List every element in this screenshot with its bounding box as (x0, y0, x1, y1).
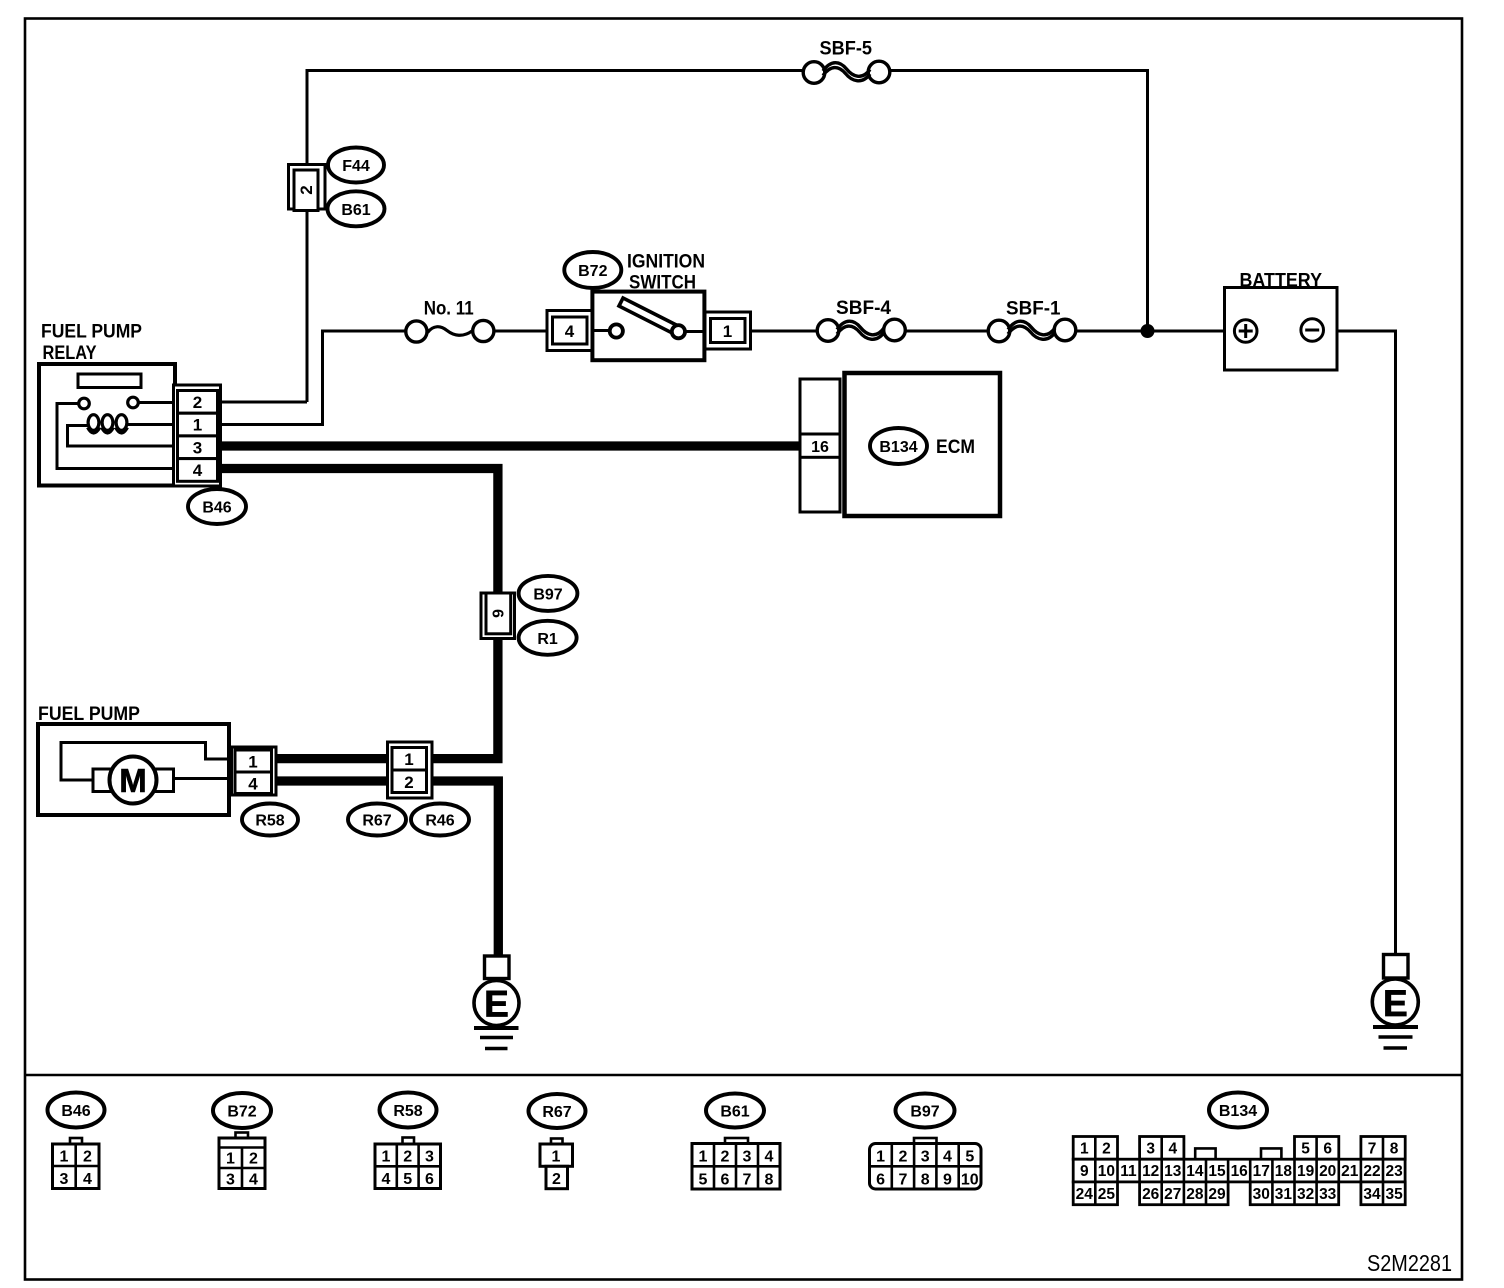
thick wire relay pin3 to ECM pin16 (218, 441, 800, 450)
svg-text:9: 9 (1080, 1163, 1089, 1180)
svg-text:2: 2 (403, 1149, 412, 1166)
svg-text:IGNITION: IGNITION (627, 252, 705, 273)
oval B46 bottom (48, 1093, 105, 1128)
svg-text:4: 4 (765, 1149, 774, 1166)
svg-text:ECM: ECM (936, 437, 975, 458)
svg-text:6: 6 (425, 1171, 434, 1188)
svg-text:RELAY: RELAY (43, 343, 97, 364)
wire top feed from F44 to SBF-5 and battery junction (307, 71, 1148, 403)
ignition switch box (592, 292, 704, 361)
svg-text:23: 23 (1385, 1163, 1403, 1180)
svg-text:19: 19 (1297, 1163, 1315, 1180)
svg-text:4: 4 (1168, 1140, 1177, 1157)
pump wire upper loop (61, 743, 235, 781)
svg-text:1: 1 (876, 1149, 885, 1166)
svg-text:34: 34 (1363, 1186, 1381, 1203)
svg-text:3: 3 (921, 1149, 930, 1166)
svg-text:3: 3 (1146, 1140, 1155, 1157)
relay contact bar (78, 374, 141, 388)
label IGNITION SWITCH (627, 252, 705, 294)
oval B97 bottom (896, 1094, 955, 1128)
svg-text:M: M (119, 762, 147, 799)
svg-text:B72: B72 (578, 263, 607, 280)
svg-text:1: 1 (381, 1149, 390, 1166)
svg-text:7: 7 (1368, 1140, 1377, 1157)
ground left connector box (485, 956, 510, 979)
svg-text:B134: B134 (1219, 1103, 1257, 1120)
wire SBF-4 to SBF-1 (904, 330, 990, 333)
oval B46 (188, 489, 246, 524)
svg-text:11: 11 (1120, 1163, 1137, 1180)
svg-text:7: 7 (743, 1172, 752, 1189)
svg-text:E: E (484, 984, 509, 1025)
oval F44 (328, 148, 384, 183)
relay coil (88, 415, 128, 433)
svg-text:FUEL PUMP: FUEL PUMP (38, 704, 140, 725)
svg-text:B97: B97 (533, 586, 562, 603)
svg-text:B72: B72 (227, 1104, 256, 1121)
svg-text:21: 21 (1341, 1163, 1359, 1180)
separator line (25, 1074, 1462, 1077)
fuse SBF-4 (817, 298, 905, 341)
svg-text:B46: B46 (61, 1103, 90, 1120)
svg-text:R67: R67 (362, 813, 391, 830)
svg-text:B97: B97 (910, 1104, 939, 1121)
ECM connector column (800, 379, 840, 512)
svg-text:28: 28 (1186, 1186, 1204, 1203)
wire ignition switch to SBF-4 (740, 330, 819, 333)
wire contact left to pin4 (57, 404, 177, 469)
svg-text:1: 1 (1080, 1140, 1089, 1157)
svg-text:B134: B134 (879, 439, 917, 456)
ECM box (845, 373, 1001, 516)
fuel pump box (38, 724, 235, 815)
oval R67 bottom (529, 1094, 586, 1128)
connector F44/B61 pin 2 (289, 165, 326, 211)
connector B72 pin 1 (705, 312, 751, 349)
connector R58 pins (232, 747, 277, 795)
svg-text:32: 32 (1297, 1186, 1314, 1203)
svg-text:31: 31 (1275, 1186, 1293, 1203)
svg-text:B61: B61 (341, 202, 370, 219)
svg-text:SBF-5: SBF-5 (820, 39, 873, 60)
oval B134 bottom (1209, 1093, 1267, 1128)
svg-text:4: 4 (943, 1149, 952, 1166)
svg-text:17: 17 (1253, 1163, 1270, 1180)
svg-text:26: 26 (1142, 1186, 1160, 1203)
svg-text:33: 33 (1319, 1186, 1337, 1203)
connector B46 relay pins (174, 385, 221, 486)
svg-text:8: 8 (1390, 1140, 1399, 1157)
fuse SBF-5 (803, 39, 890, 84)
switch contact right (672, 325, 685, 338)
svg-text:1: 1 (552, 1149, 561, 1166)
connector R58 pinout (375, 1138, 441, 1189)
svg-text:2: 2 (721, 1149, 730, 1166)
thick wire relay pin4 down through B97-R1 to fuel pump pin1 (218, 469, 503, 759)
ground right connector box (1384, 955, 1409, 979)
label FUEL PUMP RELAY (41, 322, 142, 365)
ground right E symbol (1372, 979, 1418, 1048)
oval R58 (242, 804, 298, 836)
svg-text:2: 2 (83, 1149, 92, 1166)
svg-text:1: 1 (193, 416, 202, 435)
svg-text:22: 22 (1363, 1163, 1380, 1180)
svg-text:1: 1 (60, 1149, 69, 1166)
switch contact left (610, 324, 623, 337)
svg-text:R67: R67 (542, 1104, 571, 1121)
svg-text:35: 35 (1385, 1186, 1403, 1203)
connector B97/R1 midline (481, 593, 515, 639)
wire coil to pin1 (128, 423, 177, 426)
junction node battery feed (1141, 324, 1155, 338)
svg-text:R1: R1 (537, 631, 558, 648)
svg-text:6: 6 (1323, 1140, 1332, 1157)
oval B134 ECM (870, 428, 927, 464)
connector B134 pinout (1073, 1137, 1405, 1205)
connector B72 pinout (219, 1133, 265, 1189)
svg-text:30: 30 (1253, 1186, 1270, 1203)
svg-text:4: 4 (565, 322, 575, 341)
svg-text:R58: R58 (393, 1103, 422, 1120)
oval R1 (519, 621, 577, 655)
thick wire fuel pump pin4 to left ground (274, 781, 498, 958)
svg-text:24: 24 (1076, 1186, 1094, 1203)
svg-text:2: 2 (297, 185, 316, 194)
svg-text:1: 1 (248, 753, 257, 772)
svg-text:FUEL PUMP: FUEL PUMP (41, 322, 142, 343)
svg-text:2: 2 (898, 1149, 907, 1166)
connector R67/R46 pins (388, 742, 433, 798)
connector B46 pinout (53, 1138, 100, 1189)
svg-text:6: 6 (721, 1172, 730, 1189)
svg-text:3: 3 (193, 438, 202, 457)
svg-text:4: 4 (249, 1172, 258, 1189)
svg-text:5: 5 (699, 1172, 708, 1189)
wire contact right to pin2 (139, 401, 178, 404)
motor M (110, 757, 157, 804)
svg-text:B61: B61 (720, 1104, 749, 1121)
svg-text:1: 1 (226, 1151, 235, 1168)
svg-text:8: 8 (921, 1172, 930, 1189)
svg-text:9: 9 (943, 1172, 952, 1189)
svg-text:8: 8 (765, 1172, 774, 1189)
svg-text:13: 13 (1164, 1163, 1182, 1180)
connector B97 pinout (870, 1138, 982, 1189)
svg-text:4: 4 (248, 775, 258, 794)
svg-text:5: 5 (1301, 1140, 1310, 1157)
svg-text:E: E (1383, 983, 1408, 1024)
svg-text:29: 29 (1208, 1186, 1226, 1203)
ground left E symbol (474, 981, 519, 1049)
connector B61 pinout (692, 1138, 780, 1189)
oval R67 (348, 804, 406, 836)
oval B97 (519, 576, 578, 611)
svg-text:F44: F44 (342, 158, 370, 175)
svg-text:18: 18 (1275, 1163, 1293, 1180)
svg-text:2: 2 (404, 773, 413, 792)
oval B61 (328, 191, 385, 226)
svg-text:3: 3 (226, 1172, 235, 1189)
switch lever (619, 298, 682, 336)
svg-text:2: 2 (249, 1151, 258, 1168)
oval B72 ignition switch (564, 252, 621, 288)
oval R46 (411, 804, 469, 836)
pump wire lower (174, 777, 236, 780)
svg-text:16: 16 (1231, 1163, 1249, 1180)
relay contact right (128, 397, 139, 408)
oval B61 bottom (706, 1094, 764, 1128)
motor brush right (155, 769, 174, 792)
wire battery minus to right ground (1322, 331, 1396, 955)
svg-text:SBF-1: SBF-1 (1006, 299, 1061, 320)
fuse SBF-1 (988, 299, 1076, 342)
svg-text:SBF-4: SBF-4 (836, 298, 891, 319)
svg-text:5: 5 (965, 1149, 974, 1166)
svg-text:4: 4 (381, 1171, 390, 1188)
svg-text:16: 16 (811, 439, 829, 456)
svg-text:14: 14 (1186, 1163, 1204, 1180)
svg-text:12: 12 (1142, 1163, 1159, 1180)
svg-text:10: 10 (961, 1172, 979, 1189)
wire fuse No.11 to ignition switch (493, 330, 560, 333)
svg-text:3: 3 (425, 1149, 434, 1166)
svg-text:4: 4 (193, 461, 203, 480)
connector R67 pinout (540, 1139, 573, 1189)
motor brush left (93, 769, 111, 792)
svg-text:5: 5 (403, 1171, 412, 1188)
svg-text:20: 20 (1319, 1163, 1336, 1180)
wire relay pin2 to F44 vertical (218, 401, 307, 404)
fuel pump relay box (39, 364, 177, 486)
svg-text:27: 27 (1164, 1186, 1181, 1203)
relay contact left (79, 398, 90, 409)
svg-text:R46: R46 (425, 813, 454, 830)
svg-text:B46: B46 (202, 500, 231, 517)
svg-text:6: 6 (876, 1172, 885, 1189)
battery (1225, 271, 1338, 371)
svg-text:2: 2 (552, 1171, 561, 1188)
oval R58 bottom (380, 1093, 437, 1128)
svg-text:7: 7 (898, 1172, 907, 1189)
svg-text:1: 1 (404, 750, 413, 769)
svg-text:R58: R58 (255, 813, 284, 830)
svg-text:1: 1 (699, 1149, 708, 1166)
oval B72 bottom (213, 1093, 271, 1128)
svg-text:4: 4 (83, 1171, 92, 1188)
svg-text:10: 10 (1098, 1163, 1115, 1180)
connector B72 pin 4 (547, 311, 592, 351)
svg-text:2: 2 (1102, 1140, 1111, 1157)
svg-text:2: 2 (193, 393, 202, 412)
wire coil to pin3 (68, 426, 178, 447)
wire relay pin1 up to ignition row and to fuse No.11 (218, 331, 407, 425)
svg-text:No. 11: No. 11 (424, 299, 474, 320)
svg-text:S2M2281: S2M2281 (1367, 1250, 1452, 1276)
svg-text:3: 3 (60, 1171, 69, 1188)
svg-text:3: 3 (743, 1149, 752, 1166)
wire SBF-1 to battery plus terminal (1074, 330, 1236, 333)
svg-text:1: 1 (723, 322, 732, 341)
svg-text:25: 25 (1098, 1186, 1116, 1203)
fuse No. 11 (406, 299, 494, 343)
svg-text:6: 6 (488, 609, 505, 618)
svg-text:15: 15 (1208, 1163, 1226, 1180)
